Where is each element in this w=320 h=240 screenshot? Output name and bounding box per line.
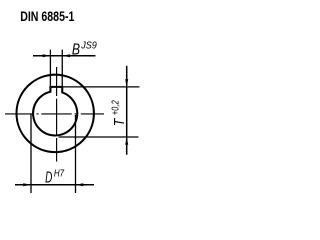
bore circle D with keyway slot	[33, 87, 77, 136]
T dimension line	[126, 66, 128, 155]
D arrow left (points right)	[23, 183, 31, 186]
svg-text:+0,2: +0,2	[111, 100, 122, 115]
svg-text:B: B	[72, 41, 80, 58]
B arrow right (points left)	[62, 54, 70, 57]
T bottom extension line (bore bottom reference)	[59, 136, 139, 138]
vertical centerline	[56, 67, 58, 162]
svg-text:D: D	[45, 170, 52, 187]
D arrow right (points left)	[76, 183, 84, 186]
D extension line left	[30, 115, 32, 194]
svg-text:JS9: JS9	[80, 41, 97, 52]
D dimension line	[15, 184, 94, 186]
T arrow bottom (points up)	[125, 137, 128, 145]
B arrow left (points right)	[43, 54, 51, 57]
svg-text:DIN 6885-1: DIN 6885-1	[20, 9, 74, 24]
outer circle (hub outline)	[17, 75, 94, 152]
T arrow top (points down)	[125, 79, 128, 87]
T top extension line (keyway top reference)	[62, 86, 139, 88]
horizontal centerline	[5, 113, 104, 115]
B extension line right	[61, 50, 63, 87]
svg-text:H7: H7	[54, 169, 64, 180]
label T +0,2 (rotated 90 CCW)	[111, 100, 128, 126]
B extension line left	[49, 50, 51, 87]
B dimension line	[33, 55, 96, 57]
D extension line right	[75, 115, 77, 193]
